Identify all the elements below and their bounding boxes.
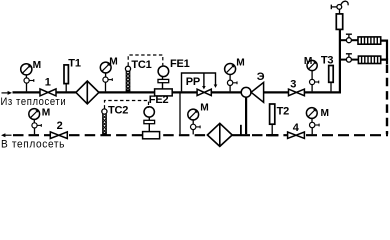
wire T2 mounting dash	[266, 134, 279, 136]
manometer M3 shutoff cock	[191, 120, 201, 134]
manometer M5 valve stem	[311, 71, 313, 92]
sensor TC1	[125, 66, 130, 91]
wire return outlet arrow	[1, 133, 12, 137]
wire radiator2 outlet	[381, 60, 387, 64]
valve 3	[289, 89, 305, 96]
manometer M1 shutoff cock	[24, 78, 34, 83]
svg-text:TC2: TC2	[108, 105, 128, 117]
sensor TC2 dashed impulse line	[105, 101, 149, 109]
manometer return shutoff cock	[32, 120, 41, 135]
manometer M5 shutoff cock	[310, 79, 319, 84]
wire return line dashed far right	[306, 134, 388, 136]
svg-text:M: M	[109, 56, 118, 67]
wire radiator1 outlet	[381, 41, 387, 60]
manometer M1 valve stem	[25, 75, 27, 92]
flow element FE1	[155, 66, 173, 96]
wire junction stub	[240, 125, 242, 135]
svg-text:В теплосеть: В теплосеть	[1, 138, 65, 149]
svg-text:TC1: TC1	[131, 59, 151, 71]
manometer M4 valve stem	[229, 75, 231, 92]
filter (mud trap) on supply	[76, 81, 99, 104]
svg-text:3: 3	[290, 79, 296, 91]
wire return line solid at junction	[232, 134, 250, 136]
wire supply line segment 6 to corner and riser	[304, 29, 340, 92]
thermometer T2	[270, 104, 275, 134]
wire supply line segment 2	[56, 91, 76, 93]
manometer M5 gauge	[307, 60, 317, 70]
valve 1	[40, 89, 56, 96]
svg-text:Из теплосети: Из теплосети	[1, 97, 67, 109]
thermometer T3	[329, 66, 334, 92]
svg-text:PP: PP	[186, 76, 200, 88]
wire supply inlet arrow	[2, 91, 13, 95]
valve 2	[50, 132, 67, 139]
svg-text:M: M	[200, 103, 209, 114]
svg-text:M: M	[304, 56, 313, 67]
flow element FE2	[143, 107, 160, 139]
valve 4	[288, 132, 305, 138]
manometer M2 gauge	[100, 62, 111, 73]
svg-text:T2: T2	[277, 106, 290, 118]
regulator PP valve	[197, 89, 211, 95]
thermometer T1	[64, 65, 68, 92]
sensor TC2	[102, 109, 107, 135]
radiator 2	[358, 56, 380, 63]
svg-text:M: M	[42, 107, 51, 118]
manometer M5r return gauge	[29, 109, 40, 120]
manometer M4 gauge	[225, 64, 236, 75]
svg-text:FE2: FE2	[149, 94, 169, 106]
svg-text:T3: T3	[321, 54, 334, 66]
svg-text:2: 2	[57, 120, 63, 132]
radiator valve 1	[346, 34, 352, 43]
svg-text:M: M	[321, 108, 330, 119]
svg-text:FE1: FE1	[170, 58, 190, 70]
wire supply line segment 5 + riser up	[264, 91, 289, 93]
wire return riser dashed	[386, 65, 388, 135]
svg-text:1: 1	[45, 77, 51, 89]
manometer M1 gauge	[21, 64, 32, 75]
wire ejector suction down	[245, 97, 247, 134]
wire return line dashed mid	[69, 134, 207, 136]
impulse line to return pipe	[179, 94, 181, 135]
wire supply line segment 3	[99, 91, 197, 93]
svg-text:Э: Э	[257, 71, 265, 83]
ejector (elevator)	[241, 82, 263, 102]
wire return line dashed right	[252, 134, 288, 136]
manometer M6 gauge	[306, 108, 317, 119]
manometer M2 shutoff cock	[103, 77, 112, 82]
filter (mud trap) on return	[207, 123, 232, 146]
svg-text:M: M	[236, 57, 245, 68]
manometer M4 shutoff cock	[227, 80, 237, 85]
manometer M6 shutoff cock	[310, 118, 320, 134]
wire supply line segment 4	[211, 91, 241, 93]
radiator valve 2	[346, 54, 352, 62]
wire supply line segment 1	[13, 91, 41, 93]
manometer M2 valve stem	[105, 73, 107, 91]
radiator branch 2	[341, 59, 347, 61]
manometer M3 gauge	[188, 109, 199, 120]
svg-text:T1: T1	[68, 57, 81, 69]
radiator 1	[358, 37, 381, 44]
svg-text:M: M	[33, 60, 42, 71]
regulator PP box	[182, 73, 218, 91]
air collector on riser	[336, 14, 342, 30]
air vent tap	[331, 1, 348, 14]
sensor TC1 dashed impulse line	[128, 55, 163, 66]
wire valve1 to radiator1	[351, 39, 358, 41]
wire return line dashed left	[13, 134, 50, 136]
wire valve2 to radiator2	[351, 59, 358, 61]
radiator branch 1	[341, 39, 347, 41]
